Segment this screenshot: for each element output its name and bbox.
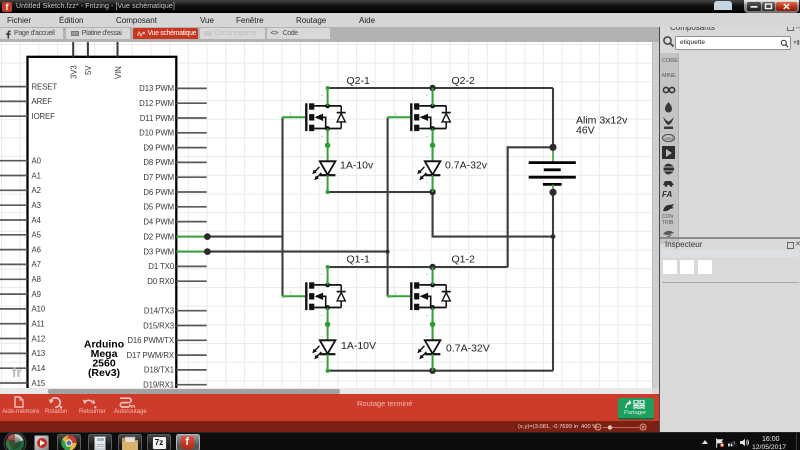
wire gate column Q2-2/Q1-2 [387, 117, 389, 296]
node LED1 cathode green end [326, 190, 330, 194]
Arduino top pin 3V3 [70, 41, 79, 79]
window title bar [0, 0, 800, 13]
Arduino right pins D13..D19 [126, 84, 206, 389]
wire Q2 leds to battery minus [433, 192, 553, 237]
transistor Q2-2 [387, 88, 451, 161]
wire D2 to gate column [207, 236, 282, 238]
junction Q1-2 led cathode on bottom bus [429, 368, 435, 374]
battery minus terminal [549, 189, 556, 196]
bottom red toolbar [0, 394, 659, 421]
wire battery plus drop [552, 88, 554, 147]
junction Q1-2 drain on Q1 bus [429, 264, 435, 270]
wire Q1 led cathode bottom bus [328, 370, 553, 372]
Arduino top pin VIN [114, 41, 123, 79]
inspector dock [660, 237, 800, 239]
junction D3 column corner [386, 250, 390, 254]
wire battery minus drop [552, 192, 554, 370]
wire D3 to gate column [207, 251, 387, 253]
transistor Q1-2 [387, 267, 451, 340]
led LED2 [417, 155, 440, 192]
battery BAT1 [529, 147, 576, 192]
wire Q1 drain bus [328, 266, 508, 268]
scrollbars [652, 41, 660, 388]
junction battery minus tee [551, 234, 556, 239]
wire D3 pin stub (green) [176, 251, 207, 253]
Arduino top pin 5V [84, 41, 93, 75]
Arduino part label [84, 339, 124, 380]
battery plus terminal [549, 144, 556, 151]
junction Q2-2 drain on top bus [429, 85, 435, 91]
node LED3 cathode green end [326, 369, 330, 373]
wire battery plus to Q1 bus [508, 147, 553, 267]
junction Q2-2 led cathode [429, 189, 435, 195]
schematic canvas [0, 41, 652, 388]
led LED1 [312, 155, 335, 192]
wire D2 pin stub (green) [176, 236, 207, 238]
windows taskbar [0, 432, 800, 450]
junction D2 [204, 233, 211, 240]
Arduino Mega 2560 U1 body [28, 57, 177, 396]
node Q1-1 drain top green end [326, 265, 330, 269]
led LED3 [312, 334, 335, 371]
transistor Q1-1 [282, 267, 346, 340]
junction D3 [204, 248, 211, 255]
Arduino left pins RESET..A15 [0, 82, 57, 387]
family tab strip [660, 53, 679, 244]
wire Q2 led cathode bus [328, 191, 433, 193]
schematic view tab bar [0, 27, 659, 42]
node Q2-1 drain top green end [326, 86, 330, 90]
right docks [659, 13, 800, 432]
wire gate column Q2-1/Q1-1 [281, 117, 283, 296]
menu bar [0, 13, 800, 27]
led LED4 [417, 334, 440, 371]
svg-text:intel: intel [665, 136, 673, 141]
transistor Q2-1 [282, 88, 346, 161]
wire top drain bus [328, 87, 553, 89]
